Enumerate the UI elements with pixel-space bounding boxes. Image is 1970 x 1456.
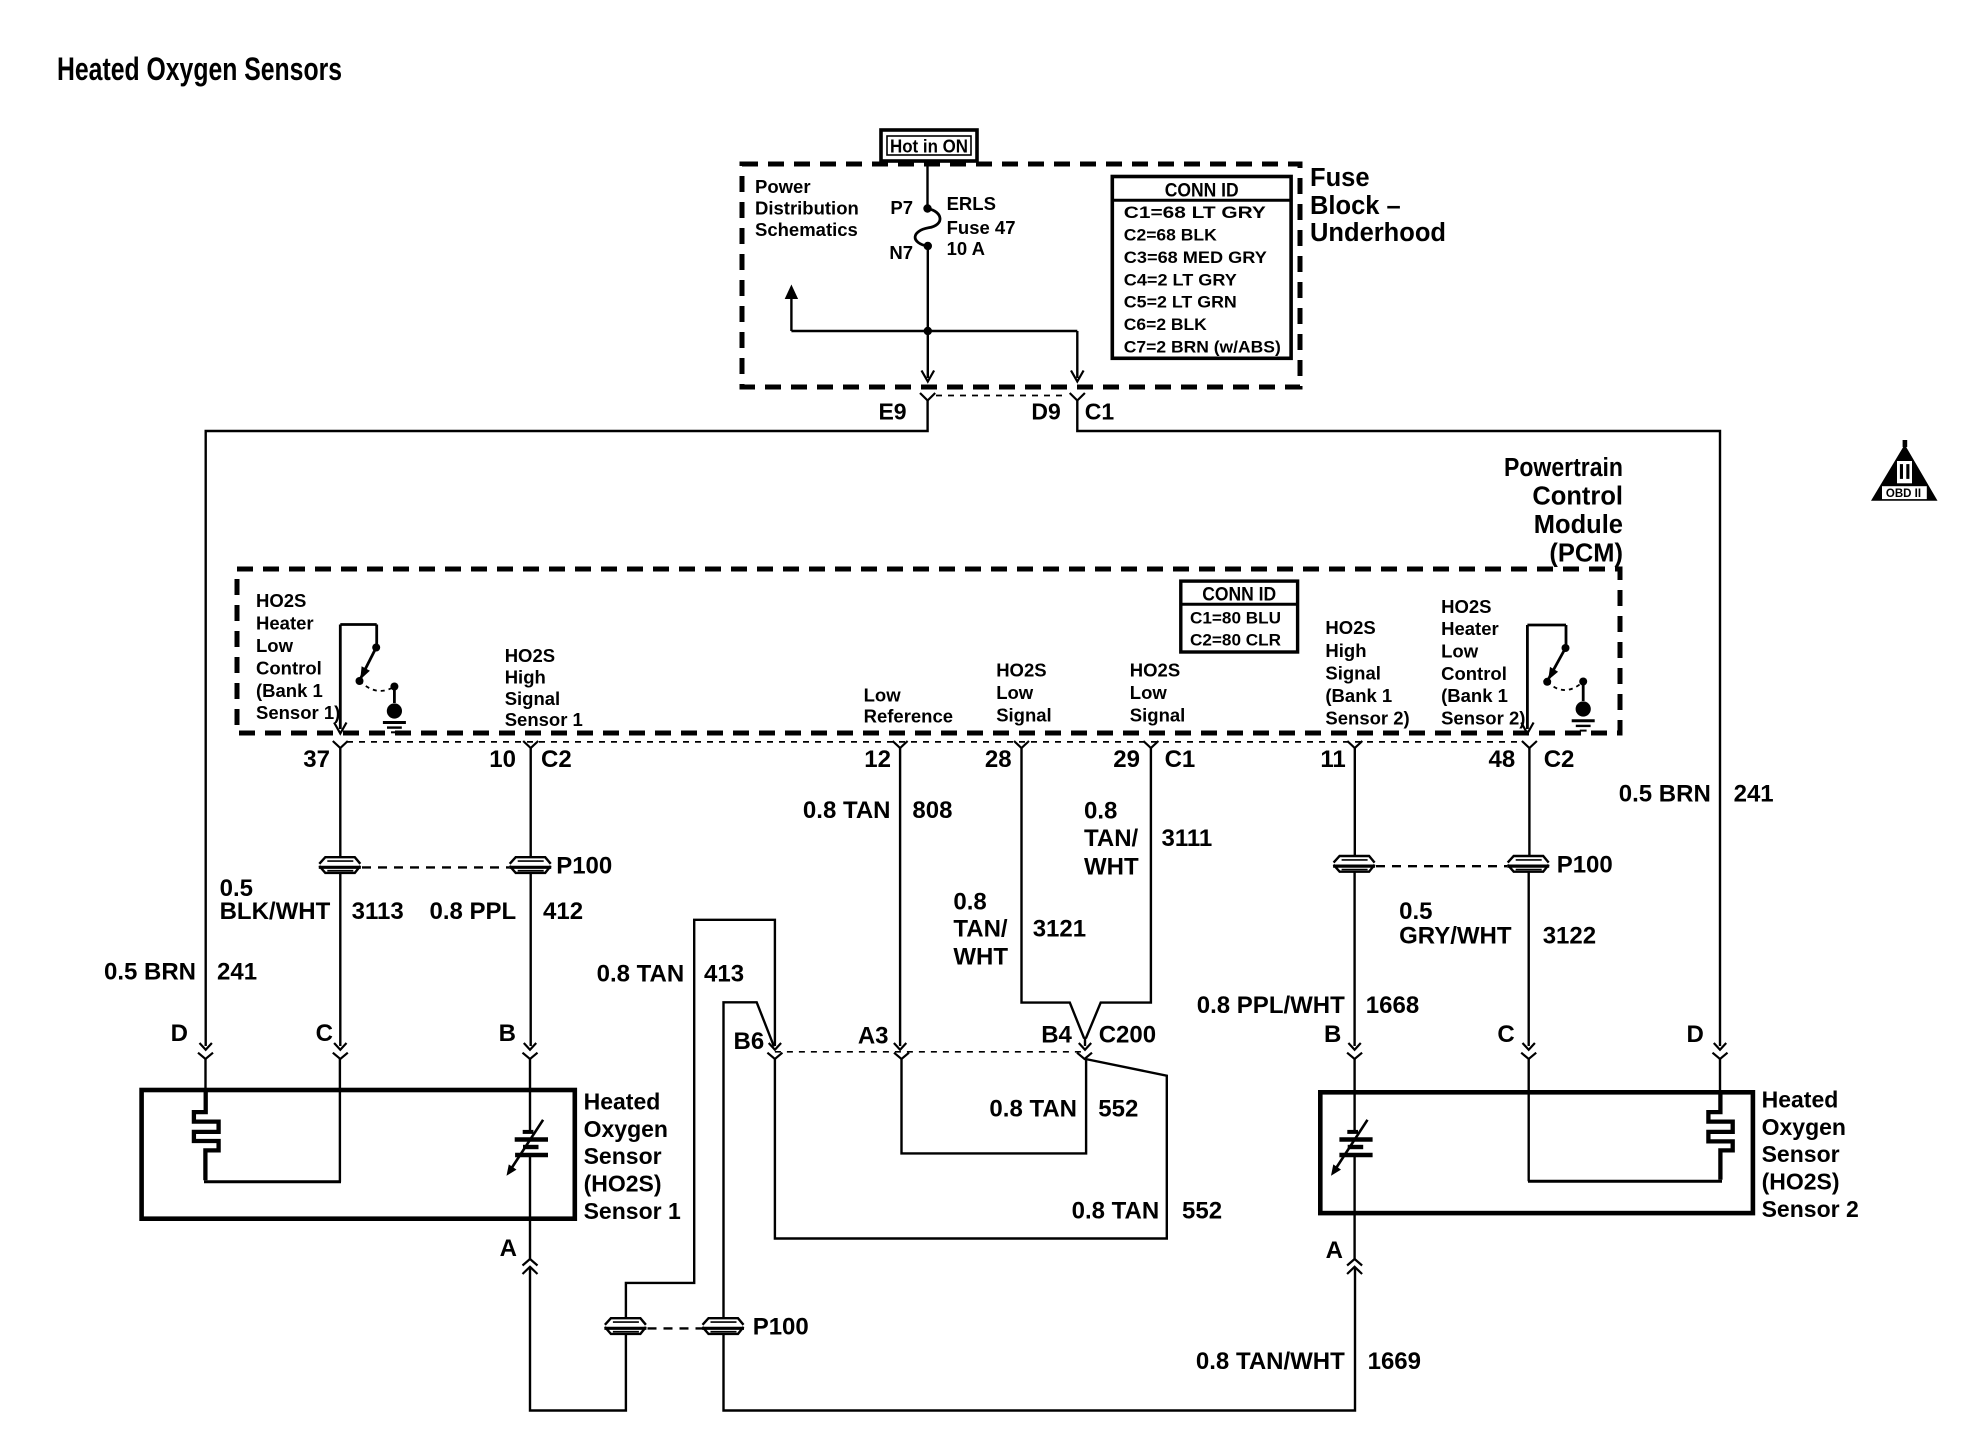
svg-text:CONN ID: CONN ID	[1165, 179, 1239, 201]
svg-text:Sensor 2): Sensor 2)	[1441, 708, 1525, 729]
wire through sensor2 element	[1353, 1059, 1355, 1132]
svg-text:12: 12	[864, 746, 891, 773]
svg-text:Sensor 2): Sensor 2)	[1325, 708, 1409, 729]
svg-text:P7: P7	[890, 197, 913, 218]
svg-text:C6=2 BLK: C6=2 BLK	[1124, 315, 1208, 334]
wire 552 A3 to B4 jumper	[902, 1059, 1087, 1153]
svg-text:E9: E9	[878, 398, 906, 424]
svg-text:ERLS: ERLS	[947, 193, 996, 214]
svg-text:High: High	[505, 667, 546, 688]
sensor1 pin C arrow	[334, 1043, 346, 1050]
pin 12 chevron	[893, 741, 908, 748]
svg-text:C2: C2	[541, 746, 572, 773]
heater element sensor1	[194, 1089, 219, 1180]
sensor2 pin A chevron and arrow	[1347, 1259, 1362, 1266]
svg-text:3111: 3111	[1162, 825, 1213, 852]
splice P100 half at wire 412	[509, 857, 551, 873]
wire junction down to E9	[927, 331, 929, 378]
splice P100 half at wire 1669 bottom	[702, 1318, 744, 1334]
ground internal left	[387, 703, 402, 718]
pin 48 chevron	[1522, 741, 1537, 748]
svg-text:A3: A3	[858, 1023, 889, 1050]
pin 37 chevron	[333, 741, 348, 748]
svg-text:C4=2 LT GRY: C4=2 LT GRY	[1124, 270, 1238, 289]
Hot in ON power tag	[881, 130, 977, 161]
svg-text:N7: N7	[889, 242, 913, 263]
svg-text:3122: 3122	[1543, 922, 1596, 949]
svg-text:(Bank 1: (Bank 1	[256, 680, 323, 701]
svg-text:Underhood: Underhood	[1310, 219, 1446, 247]
svg-text:C1=68 LT GRY: C1=68 LT GRY	[1124, 203, 1267, 222]
PCM dashed box	[237, 569, 1620, 733]
junction dot	[924, 327, 932, 335]
svg-text:Low: Low	[1130, 682, 1168, 703]
svg-text:P100: P100	[1557, 851, 1613, 878]
svg-text:C200: C200	[1099, 1022, 1156, 1049]
svg-text:241: 241	[1734, 781, 1774, 808]
PCM connector dashed line	[347, 741, 1522, 743]
svg-text:0.8 TAN: 0.8 TAN	[989, 1095, 1077, 1122]
svg-text:0.8 TAN: 0.8 TAN	[1072, 1197, 1160, 1224]
svg-text:Heated: Heated	[584, 1089, 661, 1115]
svg-text:C: C	[316, 1020, 333, 1047]
svg-text:Oxygen: Oxygen	[1762, 1114, 1846, 1140]
svg-text:0.8 TAN: 0.8 TAN	[597, 961, 685, 988]
splice P100 half at wire 3122	[1507, 856, 1549, 872]
svg-text:413: 413	[704, 961, 744, 988]
svg-text:B: B	[499, 1020, 516, 1047]
svg-text:10: 10	[489, 746, 516, 773]
svg-text:Oxygen: Oxygen	[584, 1116, 668, 1142]
node P7	[923, 204, 931, 212]
svg-text:Block –: Block –	[1310, 192, 1401, 220]
svg-text:HO2S: HO2S	[1130, 660, 1180, 681]
svg-text:552: 552	[1098, 1095, 1138, 1122]
svg-text:29: 29	[1113, 746, 1140, 773]
connector dashed line E9-D9	[936, 395, 1068, 397]
splice P100 half at wire 1668	[1333, 856, 1375, 872]
svg-text:C2=80 CLR: C2=80 CLR	[1190, 631, 1281, 650]
svg-text:0.5 BRN: 0.5 BRN	[1619, 781, 1711, 808]
CONN ID table PCM	[1181, 581, 1298, 652]
wire junction down to D9	[1076, 331, 1078, 378]
svg-text:412: 412	[543, 898, 583, 925]
svg-text:3121: 3121	[1033, 916, 1086, 943]
svg-text:Power: Power	[755, 176, 811, 197]
svg-text:0.5: 0.5	[1399, 898, 1432, 925]
svg-text:Low: Low	[864, 685, 902, 706]
svg-text:Powertrain: Powertrain	[1504, 454, 1623, 482]
fuse F47 ERLS 10A	[915, 209, 940, 247]
wire 241 left E9 to sensor1 D	[206, 401, 928, 1047]
splice P100 half at wire 3113	[319, 857, 361, 873]
svg-text:CONN ID: CONN ID	[1202, 583, 1276, 605]
svg-text:808: 808	[912, 797, 952, 824]
svg-text:HO2S: HO2S	[996, 660, 1046, 681]
sensor1 pin A chevron and arrow	[523, 1259, 538, 1266]
svg-text:Fuse: Fuse	[1310, 164, 1370, 192]
svg-text:B6: B6	[734, 1028, 765, 1055]
svg-text:Sensor: Sensor	[584, 1143, 662, 1169]
svg-text:Signal: Signal	[505, 688, 561, 709]
svg-text:Signal: Signal	[996, 704, 1052, 725]
splice dashed pair link right P100	[1376, 865, 1507, 867]
svg-text:Low: Low	[1441, 641, 1479, 662]
wire into sensor2 C	[1527, 1059, 1529, 1181]
svg-text:(Bank 1: (Bank 1	[1325, 685, 1392, 706]
svg-text:552: 552	[1182, 1197, 1222, 1224]
splice dashed pair link left P100	[362, 866, 509, 868]
O2 sense element sensor1	[523, 1130, 534, 1134]
svg-text:B4: B4	[1041, 1022, 1072, 1049]
svg-text:C1: C1	[1085, 398, 1115, 424]
svg-text:Low: Low	[256, 635, 294, 656]
svg-text:Schematics: Schematics	[755, 219, 858, 240]
svg-text:(HO2S): (HO2S)	[584, 1171, 662, 1197]
connector E9 chevron	[920, 393, 935, 401]
svg-text:10 A: 10 A	[947, 238, 985, 259]
svg-text:BLK/WHT: BLK/WHT	[220, 898, 331, 925]
driver switch Q1 heater low control bank1 sensor1	[340, 623, 376, 626]
C200 pin A3 label row: wire 808 pin12 down	[899, 748, 901, 1046]
svg-text:Sensor 1: Sensor 1	[584, 1198, 681, 1224]
wire 412 pin10 to sensor1 pin B	[530, 748, 532, 857]
svg-text:Distribution: Distribution	[755, 198, 859, 219]
pin 11 chevron	[1347, 741, 1362, 748]
wire 241 right D9 to sensor2 D	[1077, 401, 1720, 1047]
wire through sensor1 element	[529, 1059, 531, 1132]
connector D9 chevron	[1070, 393, 1085, 401]
svg-text:1668: 1668	[1366, 992, 1419, 1019]
svg-text:B: B	[1324, 1021, 1341, 1048]
svg-text:Control: Control	[1532, 482, 1623, 510]
wire to other circuits arrow up	[790, 297, 792, 331]
pin 28 chevron	[1014, 741, 1029, 748]
svg-text:Heater: Heater	[256, 613, 314, 634]
wire into sensor1 C	[339, 1059, 341, 1182]
OBD II symbol	[1871, 440, 1938, 501]
svg-text:A: A	[500, 1235, 517, 1262]
svg-text:(PCM): (PCM)	[1549, 540, 1623, 568]
svg-text:Hot in ON: Hot in ON	[890, 136, 968, 157]
svg-text:GRY/WHT: GRY/WHT	[1399, 922, 1512, 949]
HO2S sensor 2 box	[1320, 1092, 1753, 1213]
wire 3113 pin37 to sensor1 pin C upper	[339, 748, 341, 857]
svg-text:High: High	[1325, 640, 1366, 661]
wire Hot in ON to fuse	[926, 161, 928, 209]
svg-text:Heated Oxygen Sensors: Heated Oxygen Sensors	[57, 51, 342, 87]
svg-text:C7=2 BRN (w/ABS): C7=2 BRN (w/ABS)	[1124, 338, 1281, 357]
svg-text:0.8: 0.8	[953, 889, 986, 916]
CONN ID table fuse block	[1112, 177, 1291, 359]
svg-text:(HO2S): (HO2S)	[1762, 1169, 1840, 1195]
C200 pin B4 chevron	[1077, 1053, 1092, 1059]
fuse block underhood dashed box	[742, 164, 1300, 387]
svg-text:Control: Control	[256, 657, 322, 678]
splice dashed pair link bottom P100	[648, 1327, 703, 1329]
svg-text:Reference: Reference	[864, 706, 953, 727]
svg-text:1669: 1669	[1368, 1348, 1421, 1375]
C200 B6 arrow	[769, 1043, 781, 1050]
svg-text:0.8: 0.8	[1084, 798, 1117, 825]
svg-text:0.8 PPL: 0.8 PPL	[430, 898, 517, 925]
svg-text:Sensor 1: Sensor 1	[505, 709, 583, 730]
svg-text:Heated: Heated	[1762, 1087, 1839, 1113]
svg-text:HO2S: HO2S	[505, 645, 555, 666]
node N7	[924, 242, 932, 250]
svg-text:HO2S: HO2S	[256, 590, 306, 611]
svg-text:D: D	[1686, 1021, 1703, 1048]
sensor2 pin B arrow	[1348, 1043, 1360, 1050]
svg-text:TAN/: TAN/	[1084, 825, 1139, 852]
HO2S sensor 1 box	[142, 1090, 575, 1219]
svg-text:Control: Control	[1441, 663, 1507, 684]
svg-text:0.8 TAN/WHT: 0.8 TAN/WHT	[1196, 1348, 1345, 1375]
svg-text:C5=2 LT GRN: C5=2 LT GRN	[1124, 293, 1237, 312]
svg-text:Signal: Signal	[1325, 662, 1381, 683]
svg-text:A: A	[1326, 1237, 1343, 1264]
svg-text:C1=80 BLU: C1=80 BLU	[1190, 608, 1281, 627]
svg-text:11: 11	[1320, 746, 1345, 773]
svg-text:WHT: WHT	[1084, 854, 1139, 881]
wire 552 B6 to B4 lower jumper	[775, 1059, 1167, 1239]
svg-text:D9: D9	[1031, 398, 1060, 424]
C200 connector dashed line	[775, 1051, 1085, 1053]
svg-text:48: 48	[1488, 746, 1515, 773]
svg-text:0.5 BRN: 0.5 BRN	[104, 959, 196, 986]
svg-text:P100: P100	[753, 1314, 809, 1341]
pin 29 chevron	[1143, 741, 1158, 748]
svg-text:OBD II: OBD II	[1886, 488, 1921, 500]
wire junction horizontal	[791, 330, 1077, 332]
O2 sense element sensor2	[1347, 1130, 1358, 1134]
svg-text:WHT: WHT	[953, 944, 1008, 971]
svg-text:241: 241	[217, 959, 257, 986]
pin 10 chevron	[523, 741, 538, 748]
wire 1669 sensor2 A to C200 B6	[724, 1267, 1356, 1411]
svg-text:37: 37	[303, 746, 330, 773]
sensor2 pin C arrow	[1523, 1043, 1535, 1050]
wire 3122 pin48 to sensor2 pin C	[1528, 748, 1530, 856]
wire N7 down to junction	[927, 246, 929, 331]
svg-text:C: C	[1497, 1021, 1514, 1048]
svg-text:28: 28	[985, 746, 1012, 773]
svg-text:Fuse 47: Fuse 47	[947, 217, 1016, 238]
sensor1 pin B arrow	[524, 1043, 536, 1050]
svg-text:Sensor 1): Sensor 1)	[256, 702, 340, 723]
svg-text:HO2S: HO2S	[1441, 596, 1491, 617]
wire 3113 lower segment	[339, 873, 341, 1046]
svg-text:Sensor 2: Sensor 2	[1762, 1196, 1859, 1222]
svg-text:(Bank 1: (Bank 1	[1441, 685, 1508, 706]
wire 3121 pin28 to C200 B4	[1022, 748, 1085, 1039]
svg-text:C2: C2	[1544, 746, 1575, 773]
svg-text:D: D	[171, 1020, 188, 1047]
wire 413 sensor1 A to C200 B6	[530, 1267, 626, 1411]
svg-text:C1: C1	[1165, 746, 1196, 773]
svg-text:0.8 PPL/WHT: 0.8 PPL/WHT	[1197, 992, 1345, 1019]
svg-text:Low: Low	[996, 682, 1034, 703]
svg-text:Signal: Signal	[1130, 704, 1186, 725]
svg-text:3113: 3113	[352, 898, 404, 925]
svg-text:0.8 TAN: 0.8 TAN	[803, 797, 891, 824]
splice P100 half at wire 413 bottom	[604, 1318, 646, 1334]
svg-text:P100: P100	[556, 853, 612, 880]
svg-text:HO2S: HO2S	[1325, 617, 1375, 638]
svg-text:Module: Module	[1534, 511, 1623, 539]
wire 3111 pin29 to C200 B4	[1086, 748, 1151, 1039]
heater element sensor2	[1708, 1091, 1732, 1180]
svg-text:Sensor: Sensor	[1762, 1141, 1840, 1167]
svg-text:C2=68 BLK: C2=68 BLK	[1124, 225, 1218, 244]
wire 1668 pin11 to sensor2 pin B	[1354, 748, 1356, 856]
ground internal right	[1576, 701, 1591, 716]
driver switch Q2 heater low control bank1 sensor2	[1527, 624, 1566, 627]
svg-text:C3=68 MED GRY: C3=68 MED GRY	[1124, 248, 1268, 267]
svg-text:TAN/: TAN/	[953, 916, 1008, 943]
svg-text:Heater: Heater	[1441, 618, 1499, 639]
